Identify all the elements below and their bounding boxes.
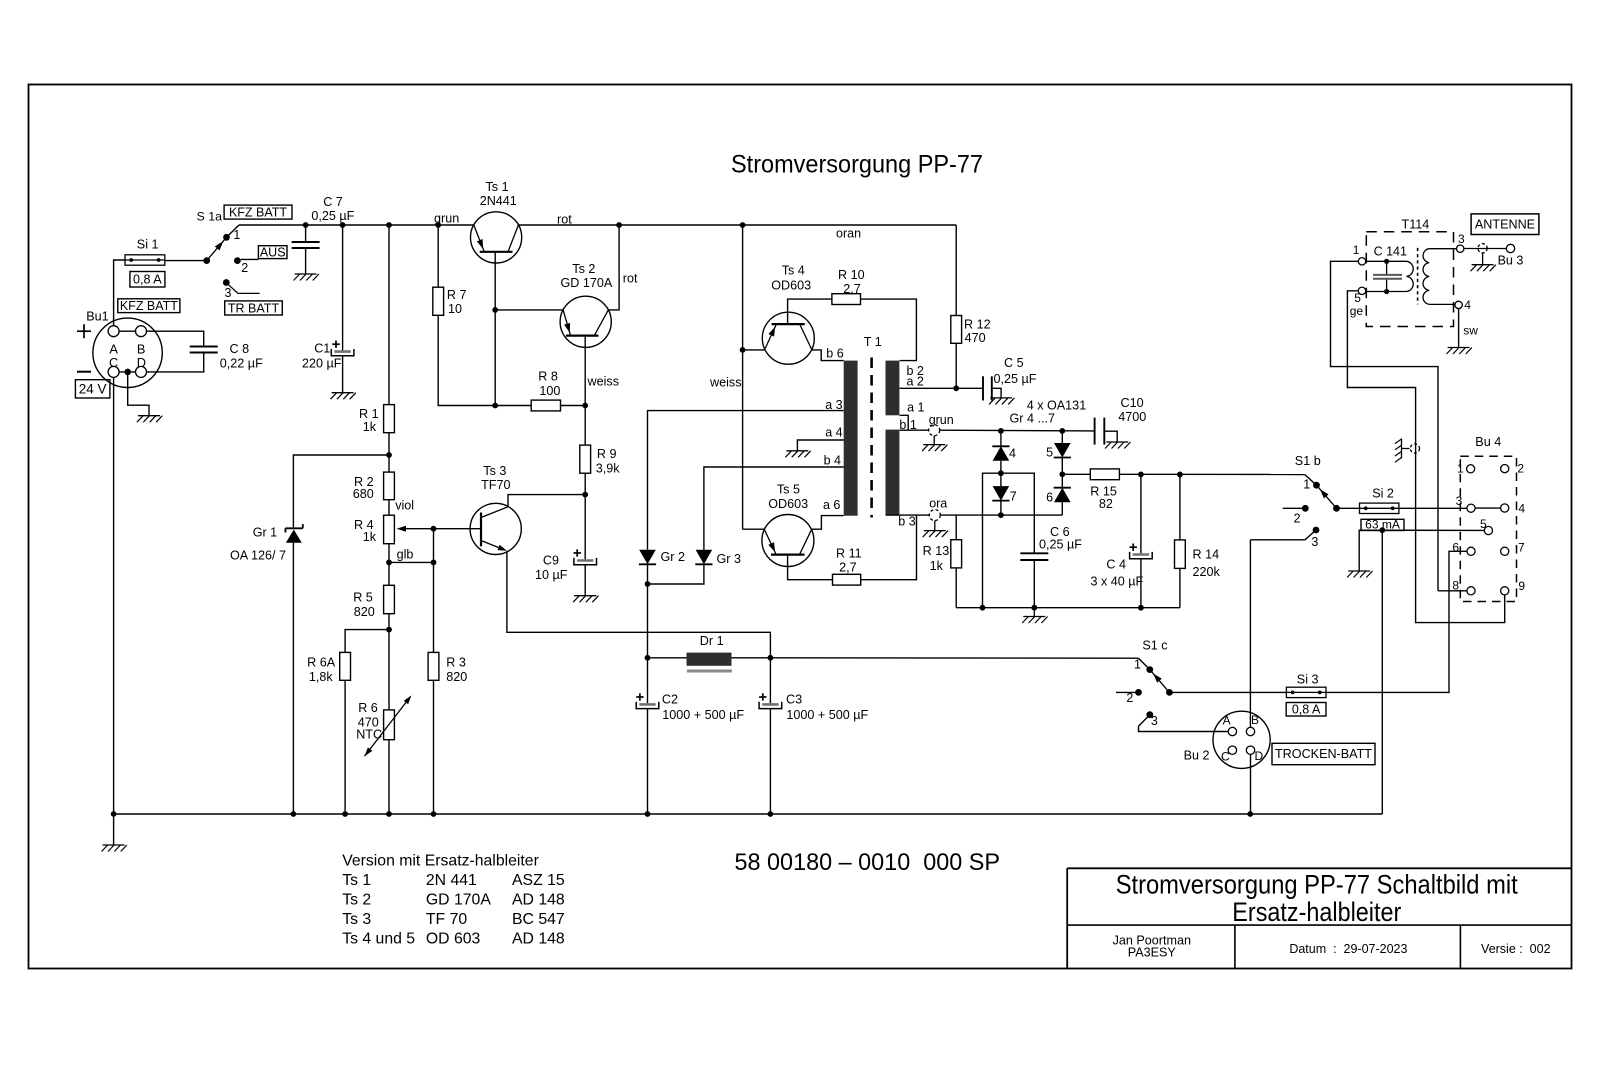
capacitor C10 labels [1118,396,1146,424]
resistor R10 labels [838,268,865,296]
wire grun to bridge top [940,429,1095,432]
ground C1 [331,393,356,400]
diode Gr 3 [695,550,712,565]
connector point ora (dashed circle) [929,510,940,521]
svg-text:4700: 4700 [1118,410,1146,424]
svg-text:b 6: b 6 [826,346,843,360]
connector Bu1 label [86,310,108,324]
junction bus Bu1C [111,811,117,817]
svg-text:Gr 1: Gr 1 [253,526,278,540]
svg-text:C9: C9 [543,554,559,568]
wire Ts3 emitter down [507,551,771,658]
capacitor C141 label [1374,244,1407,258]
diode Gr 1 zener [285,524,302,543]
ground grun point [922,436,947,451]
junction bus Bu2 D [1247,811,1253,817]
svg-text:C 8: C 8 [230,342,250,356]
switch S1a contact 1 [223,234,230,241]
ground antenna chassis [1471,253,1496,271]
diode Gr5 label [1046,445,1053,459]
wire Gr4 to node [1000,461,1002,473]
wire Si1 to S1a pivot [165,260,207,262]
antenna chassis point (dashed circle) [1478,244,1487,253]
node label weiss (Ts2) [587,374,620,388]
svg-text:viol: viol [395,499,414,513]
transistor Ts5 collector [800,529,812,554]
wire Ts2 emitter from Ts1 base [495,309,563,311]
svg-text:ASZ 15: ASZ 15 [512,872,565,889]
svg-text:T114: T114 [1402,217,1430,231]
junction Dr1 right / C3 [768,655,774,661]
switch S1a contact 1 label [233,228,240,242]
capacitor C6 [1020,553,1048,560]
junction top bus C1 [340,222,346,228]
resistor R12 labels [964,318,991,345]
ground C9 [573,596,598,603]
wire R11 to b3 [861,515,917,580]
transistor Ts1 base bar [480,251,513,253]
label box 0,8 A (Si3) [1286,702,1326,716]
svg-text:A: A [1223,714,1231,728]
T1 tap a1 label [907,400,924,414]
svg-text:2: 2 [1517,462,1524,476]
capacitor C10 [1095,418,1105,445]
wire T114 pin1 to Bu4 pin8 riser [1331,261,1439,591]
capacitor C9 plus [574,549,581,556]
svg-text:R 5: R 5 [353,590,373,604]
wire S1c contact3 to Bu2 A [1139,715,1229,732]
resistor R6 labels [356,701,382,742]
svg-text:R 9: R 9 [597,447,617,461]
svg-text:a 2: a 2 [907,374,924,388]
capacitor C4 plus [1130,544,1137,551]
fuse Si 3 [1286,687,1326,697]
T114 pin 4 label [1464,298,1471,312]
transistor Ts4 base bar [772,323,805,325]
svg-text:Ts 2: Ts 2 [342,891,371,908]
label box KFZ BATT (Bu1) [118,299,180,313]
wire bus to R1 [388,225,390,405]
switch S1a pivot contact [203,257,210,264]
wire T114 pin4 to ground [1458,309,1460,348]
svg-text:Ts 4: Ts 4 [782,263,805,277]
junction bus C3 [768,811,774,817]
wire R9 to node [584,473,586,494]
svg-text:D: D [1255,749,1264,763]
transistor Ts2 emitter [563,310,571,336]
junction ora wire / Gr7 [998,512,1004,518]
transformer T114 label [1402,217,1430,231]
svg-text:58 00180 – 0010 000 SP: 58 00180 – 0010 000 SP [735,849,1001,876]
Bu4 pin 4 [1501,504,1509,512]
svg-text:1000 + 500 µF: 1000 + 500 µF [662,708,744,722]
junction glb left [386,560,392,566]
wire C5 to ground [992,388,1001,398]
Bu2 pin labels [1221,713,1264,763]
svg-text:rot: rot [557,213,572,227]
R4 wiper arrow [397,526,435,532]
resistor R15 labels [1090,484,1117,511]
svg-text:3: 3 [1458,232,1465,246]
junction bus R3 [431,811,437,817]
junction Bu1 center pin [124,369,131,376]
svg-text:7: 7 [1518,540,1525,554]
T1 tap b3 label [898,515,915,529]
junction R5 bottom [386,627,392,633]
svg-text:4: 4 [1518,501,1525,515]
svg-text:5: 5 [1480,517,1487,531]
svg-text:S 1a: S 1a [197,210,223,224]
svg-text:C 141: C 141 [1374,244,1407,258]
transistor Ts2 circle [560,296,611,347]
junction R15/C4 [1138,472,1144,478]
wire Ts2 collector to bus [608,225,619,310]
wire Bu1 center to ground [128,372,149,416]
wire Gr7 to ora wire [1000,501,1002,515]
label box TR BATT [225,301,283,315]
Bu1 pin D [136,366,147,377]
label box ANTENNE [1471,214,1539,235]
capacitor C8 [190,347,218,353]
diode Gr7 label [1010,489,1017,503]
wire a2 output [900,387,983,389]
title block title line1 [1116,870,1518,900]
connector Bu3 label [1498,254,1524,268]
switch S1b contact 1 [1313,482,1320,489]
svg-text:1000 + 500 µF: 1000 + 500 µF [786,708,868,722]
label box 0,8 A (Si1) [130,272,165,288]
svg-text:R 14: R 14 [1193,547,1220,561]
svg-text:AD 148: AD 148 [512,930,565,947]
Bu4 pin 1 [1467,465,1475,473]
transistor Ts5 circle [762,515,814,567]
svg-text:ge: ge [1350,304,1364,318]
connector point grun (dashed circle) [929,425,940,436]
svg-text:Ts 5: Ts 5 [777,483,800,497]
T1 tap b2 label [907,364,924,378]
transistor Ts3 collector [481,507,508,518]
capacitor C5 labels [994,356,1037,386]
Bu1 pin C [108,366,119,377]
svg-text:470: 470 [965,331,986,345]
svg-text:1k: 1k [363,420,377,434]
junction Gr5/R15 [1059,471,1065,477]
svg-text:OD603: OD603 [768,497,808,511]
label box KFZ BATT (top) [224,205,292,219]
wire local 0V bus [956,607,1180,609]
switch S1c label [1142,638,1167,652]
transistor Ts2 collector [594,310,608,336]
wire R4 to glb node [388,544,390,586]
switch S1c contact 1 [1146,666,1153,673]
transistor Ts1 emitter [474,225,485,252]
svg-text:0,8 A: 0,8 A [133,272,162,286]
svg-text:10 µF: 10 µF [535,568,568,582]
transistor Ts4 emitter [765,324,777,350]
diode Gr5 [1054,431,1071,458]
switch S1b contact 2 [1302,505,1309,512]
wire S1c pivot to Si3 [1169,691,1286,693]
svg-text:Version mit Ersatz-halbleiter: Version mit Ersatz-halbleiter [342,852,539,869]
resistor R13 [951,515,962,608]
transformer T114 dashed box [1366,232,1453,327]
svg-text:Gr 4 ...7: Gr 4 ...7 [1010,412,1056,426]
svg-text:R 10: R 10 [838,268,865,282]
switch S1a arm with arrow [207,237,227,260]
wire R8 right segment [561,405,586,407]
resistor R11 [833,574,861,585]
diode Gr4 label [1009,447,1016,461]
transistor Ts4 labels [771,263,811,292]
node label rot (bus) [557,213,572,227]
connector Bu4 label [1475,435,1501,449]
wire R12 to a2 [955,343,957,388]
svg-text:Datum : 29-07-2023: Datum : 29-07-2023 [1289,942,1407,956]
svg-text:Gr 3: Gr 3 [717,552,742,566]
connector Bu1 outline [93,318,162,387]
junction bridge top right [1059,428,1065,434]
svg-text:0,25 µF: 0,25 µF [1039,538,1082,552]
svg-text:2N 441: 2N 441 [426,872,477,889]
svg-text:ora: ora [929,496,947,510]
svg-text:b 3: b 3 [898,515,915,529]
svg-text:Ts 2: Ts 2 [572,262,595,276]
title block date [1289,942,1407,956]
junction local bus bridge [980,605,986,611]
Bu1 minus mark [77,371,91,373]
T114 pin 4 [1455,301,1462,308]
wire C6 to local bus [1033,560,1035,608]
resistor R15 [1090,469,1119,480]
Bu1 pin B [136,326,147,337]
wire weiss vertical [742,225,744,529]
switch S1b contact 3 [1313,527,1320,534]
wire Bu1 B to C8 [147,331,204,346]
wire S1b contact2 stub [1283,507,1306,509]
svg-text:R 3: R 3 [446,655,466,669]
wire Ts2 base down weiss [584,336,586,446]
svg-text:R 13: R 13 [923,544,950,558]
Bu2 pin C [1228,746,1236,754]
junction Gr4/Gr7 node [998,470,1004,476]
wire S1a contact3 stub [229,285,260,294]
resistor R8 labels [538,370,560,398]
switch S1c contact3 label [1151,714,1158,728]
wire R5 to R6 [388,614,390,710]
wire bus ground stem [113,814,115,845]
svg-text:6: 6 [1452,540,1459,554]
diode Gr1 labels [230,526,286,563]
T1 secondary winding bar upper [886,361,900,416]
wire ground to Bu4 pin5 row [1359,530,1484,571]
wire Gr5 to R15 node [1061,458,1063,475]
switch S1a contact 2 label [241,261,248,275]
wire Bu4 pin9 to T114 pin5 riser [1347,291,1504,623]
resistor R11 labels [836,546,862,574]
svg-text:1: 1 [1134,658,1141,672]
Bu2 pin A [1228,727,1236,735]
switch S1b contact2 label [1294,512,1301,526]
wire S1b pos3 down to Bu2 B [1249,540,1251,728]
T1 core dashed line [870,358,873,518]
junction R1 bottom [386,452,392,458]
ground T1 a4 [785,451,810,458]
T1 secondary winding bar lower [886,430,900,515]
resistor R6A [340,652,351,680]
capacitor C1 [331,225,354,393]
T114 pin 5 label [1354,291,1361,305]
resistor R6A labels [307,655,336,684]
svg-text:C 7: C 7 [323,195,343,209]
wire S1a contact1 to top bus [227,225,240,237]
capacitor C3 labels [786,693,869,723]
label box 24 V [75,380,110,398]
transistor Ts2 base bar [566,335,599,337]
wire bottom 0V bus [114,530,1383,814]
Bu4 pin 7 [1501,547,1509,555]
svg-text:C2: C2 [662,693,678,707]
resistor R7 [433,287,444,315]
svg-text:0,22 µF: 0,22 µF [220,357,263,371]
T1 primary winding bar [844,361,858,516]
svg-text:0,25 µF: 0,25 µF [994,372,1037,386]
ground C7 [294,274,319,281]
fuse Si1 label [137,238,159,252]
T1 tap label b6 [826,346,843,360]
svg-text:GD 170A: GD 170A [561,276,613,290]
wire Ts5 collector to a6 [812,516,844,530]
junction bus R6A [342,811,348,817]
svg-text:C 4: C 4 [1106,557,1126,571]
resistor R13 labels [923,544,950,573]
switch S1a contact 3 label [225,286,232,300]
label box TROCKEN-BATT [1272,743,1375,764]
svg-text:7: 7 [1010,489,1017,503]
junction top bus grun/R7 [435,222,441,228]
junction bus R6 [386,811,392,817]
ground ora point [923,521,948,538]
fuse Si2 label [1372,486,1394,500]
svg-text:10: 10 [448,302,462,316]
replacement semiconductor table [342,852,565,947]
svg-text:82: 82 [1099,497,1113,511]
chassis connection point (dashed circle) [1410,444,1419,453]
resistor R7 labels [447,288,467,316]
Bu2 pin B [1246,727,1254,735]
diode Gr 2 [639,550,656,565]
node label weiss (Ts4/5) [709,376,742,390]
svg-text:Gr 2: Gr 2 [661,550,686,564]
junction Ts1 base / Ts2 emitter [492,307,498,313]
svg-text:Stromversorgung PP-77: Stromversorgung PP-77 [731,151,983,179]
switch S1b contact1 label [1303,477,1310,491]
junction top bus C7 [303,222,309,228]
svg-text:0,25 µF: 0,25 µF [311,209,354,223]
svg-text:Bu 4: Bu 4 [1475,435,1501,449]
T1 tap a6 label [823,498,840,512]
fuse Si3 label [1297,673,1319,687]
svg-text:2,7: 2,7 [843,282,861,296]
svg-text:PA3ESY: PA3ESY [1128,946,1177,960]
svg-text:a 3: a 3 [825,398,842,412]
capacitor C3 plus [759,693,766,700]
capacitor C2 labels [662,693,745,723]
ground bottom bus [102,845,127,852]
switch S1a label [197,210,223,224]
capacitor C7 [292,225,320,274]
wire R6 to bus [388,740,390,814]
svg-text:C: C [1221,749,1230,763]
svg-text:C 5: C 5 [1004,356,1024,370]
svg-text:Si 3: Si 3 [1297,673,1319,687]
ground local bus [1033,608,1035,617]
node label ora [929,496,947,510]
svg-text:5: 5 [1046,445,1053,459]
wire Ts3 collector to R9 node [508,495,585,507]
node label oran [836,227,861,241]
capacitor C6 labels [1039,525,1082,552]
wire output to S1c [770,657,1138,659]
wire R1 node to Gr1 [293,455,389,528]
transistor Ts2 labels [561,262,613,290]
svg-text:1: 1 [1353,243,1360,257]
resistor R3 labels [446,655,467,684]
svg-text:C10: C10 [1121,396,1144,410]
wire R3 to bus [433,680,435,814]
capacitor C9 [574,495,597,596]
T1 tap a3 label [825,398,842,412]
transistor Ts5 emitter [764,529,776,554]
wire a3 to Gr2 [648,411,844,550]
wire R15 row to S1b contact1 [1305,475,1317,486]
svg-text:Si 2: Si 2 [1372,486,1394,500]
label box AUS [258,245,287,259]
resistor R8 [531,400,560,411]
junction R9 bottom [582,492,588,498]
wire Ts4 emitter to weiss [743,349,765,351]
wire Bu4 pin3 to pin4 [1475,507,1501,509]
Bu4 pin 3 [1467,504,1475,512]
capacitor C2 plus [636,693,643,700]
svg-text:220 µF: 220 µF [302,357,342,371]
wire Ts3 base from R4 node [434,528,482,530]
wire Bu2 D to bus [1250,754,1252,814]
wire C8 to Bu1 D [147,353,204,372]
svg-text:ANTENNE: ANTENNE [1475,218,1535,232]
node label grun (secondary) [929,413,954,427]
svg-text:TF70: TF70 [481,478,510,492]
junction local bus C4 [1138,605,1144,611]
svg-text:NTC: NTC [356,728,382,742]
resistor R1 [384,405,395,433]
wire bridge left leg [983,473,1001,608]
switch S1c pivot contact [1166,689,1173,696]
title block frame [1067,868,1572,968]
resistor R6 NTC [384,710,395,740]
capacitor C2 [636,658,659,814]
Bu4 pin 6 [1467,547,1475,555]
svg-text:b 4: b 4 [824,454,841,468]
transistor Ts3 base bar [480,513,482,547]
node label glb [397,548,414,562]
switch S1b contact3 label [1311,535,1318,549]
T114 pin 1 [1358,258,1365,265]
svg-text:a 4: a 4 [825,426,842,440]
transistor Ts5 base bar [771,553,805,555]
R6 NTC arrow [365,695,412,756]
svg-text:3: 3 [225,286,232,300]
label box 63 mA [1361,517,1404,531]
